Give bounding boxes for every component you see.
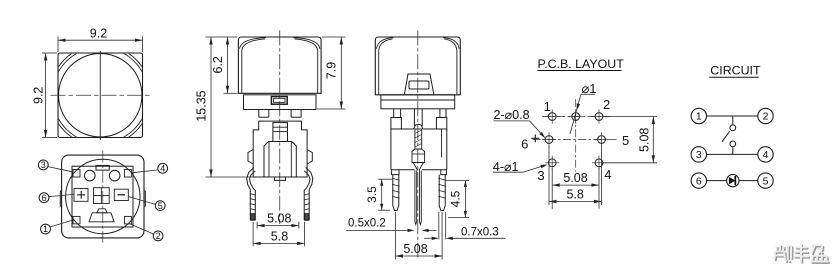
- top view horizontal centerline: [51, 94, 151, 96]
- side view button cap outline: [375, 37, 460, 95]
- callout 4 circle: [158, 163, 168, 173]
- side view LED body hatched cylinder: [415, 129, 422, 149]
- top view switch body square outline: [58, 53, 143, 138]
- pcb label 2-dia-0.8 leader: [530, 121, 544, 137]
- side view LED crimp cup: [412, 149, 425, 163]
- callout 2 circle: [153, 231, 163, 241]
- svg-text:15.35: 15.35: [194, 90, 208, 121]
- svg-text:9.2: 9.2: [32, 87, 46, 104]
- front view centerline: [279, 31, 281, 225]
- bottom view vertical centerline: [102, 151, 104, 243]
- front view inner housing pedestal: [264, 142, 296, 178]
- svg-text:3: 3: [537, 168, 544, 183]
- circuit switch lower contact: [730, 141, 736, 147]
- callout 5 leader: [128, 197, 155, 205]
- circuit LED symbol: [727, 174, 739, 186]
- side view dim 5.08: [395, 255, 442, 257]
- side view dim 3.5 extension lines: [378, 178, 392, 180]
- bottom view left LED pin tab: [59, 191, 61, 207]
- side view right pin collar: [436, 118, 446, 130]
- pcb hole pin 6: [545, 136, 553, 144]
- pcb dim 5.08 horizontal extension lines: [551, 168, 553, 209]
- svg-text:1: 1: [544, 99, 551, 114]
- callout 4 leader: [132, 170, 158, 173]
- side view LED funnel: [413, 163, 423, 171]
- circuit wire row3 left: [707, 180, 727, 182]
- callout 3 circle: [38, 160, 48, 170]
- callout 6 circle: [39, 193, 49, 203]
- front view dim 5.08 extension lines: [256, 222, 258, 229]
- front view neck stubs: [258, 110, 260, 118]
- bottom view LED anode mark plus rectangle: [74, 189, 88, 202]
- side view dim 3.5: [381, 179, 383, 210]
- svg-text:5: 5: [622, 133, 629, 148]
- bottom view LED cathode mark minus rectangle: [114, 189, 128, 200]
- side view base block: [381, 95, 455, 109]
- top view dim 9.2 horizontal: [58, 39, 143, 41]
- front view left mounting clip ear: [248, 150, 253, 165]
- bottom view bottom keying trapezoid: [89, 213, 114, 222]
- side view LED lens dome: [413, 109, 415, 127]
- svg-text:3: 3: [696, 149, 702, 161]
- callout 6 leader: [49, 194, 74, 196]
- svg-text:6.2: 6.2: [211, 56, 225, 73]
- pcb hole pin 4: [595, 159, 603, 167]
- svg-text:2: 2: [603, 97, 610, 112]
- pcb hole pin 1: [548, 113, 556, 121]
- pcb layout row1 centerline: [542, 116, 611, 118]
- side view body left foot: [392, 170, 399, 175]
- pcb label dia-1 leader: [570, 94, 581, 134]
- callout 5 circle: [155, 201, 165, 211]
- bottom view center stem square with cross: [94, 188, 110, 204]
- pcb dim 5.8: [549, 201, 602, 203]
- bottom view pin 3 corner pad: [73, 170, 80, 178]
- bottom view pin 1 corner pad: [73, 216, 80, 224]
- front view right mounting clip ear: [307, 150, 312, 165]
- svg-text:4: 4: [160, 164, 165, 174]
- pcb layout vertical centerline: [575, 99, 577, 172]
- circuit terminal 2: [758, 108, 773, 123]
- side view label 0.5x0.2 leader: [346, 229, 407, 231]
- pcb LED hole center mark: [531, 137, 539, 139]
- side view label 0.7x0.3 leader: [424, 237, 432, 239]
- svg-text:5.8: 5.8: [567, 188, 584, 202]
- bottom view pin 4 corner pad: [124, 170, 131, 178]
- circuit terminal 1: [691, 108, 706, 123]
- callout 2 leader: [129, 223, 154, 234]
- svg-text:⌀1: ⌀1: [581, 81, 596, 96]
- front view switch body outline: [253, 121, 307, 177]
- svg-text:4.5: 4.5: [449, 190, 463, 207]
- front view base block: [244, 95, 317, 110]
- front view body bottom center foot: [275, 177, 286, 180]
- side view left switch pin: [392, 175, 394, 206]
- top view round button cap circle: [59, 54, 142, 137]
- pcb dim 5.8 extension lines: [548, 146, 550, 206]
- side view cap latch boss: [404, 74, 434, 95]
- svg-text:7.9: 7.9: [325, 62, 339, 79]
- front view right solder leg: [306, 168, 313, 221]
- circuit switch lever: [722, 131, 730, 142]
- svg-text:5: 5: [763, 175, 769, 187]
- svg-text:5.08: 5.08: [267, 211, 291, 225]
- svg-text:1: 1: [43, 224, 48, 234]
- callout 1 circle: [41, 224, 51, 234]
- front view dim 6.2 extension line: [224, 92, 238, 94]
- bottom view right LED pin tab: [144, 191, 146, 207]
- bottom view base circle: [66, 159, 140, 233]
- callout 3 leader: [48, 167, 73, 172]
- svg-text:5: 5: [158, 201, 163, 211]
- front view dim 6.2: [227, 37, 229, 93]
- pcb dim 5.08 vertical: [652, 117, 654, 163]
- front view dim 5.8 extension lines: [252, 222, 254, 247]
- front view dim 5.8: [253, 242, 304, 244]
- circuit terminal 3: [691, 147, 706, 162]
- circuit terminal 4: [758, 147, 773, 162]
- side view dim 5.08 extension lines: [394, 212, 396, 260]
- top view dim 9.2 vertical extension lines: [42, 52, 57, 54]
- front view button cap outline: [238, 37, 321, 93]
- top view vertical center line: [99, 51, 101, 140]
- svg-text:9.2: 9.2: [90, 26, 107, 40]
- svg-text:5.08: 5.08: [403, 242, 427, 256]
- svg-text:2: 2: [763, 111, 769, 123]
- front view dim 15.35: [210, 37, 212, 177]
- front view dim 5.08: [257, 225, 299, 227]
- callout 1 leader: [50, 220, 74, 227]
- top view dim 9.2 vertical: [45, 53, 47, 138]
- side view right switch pin: [438, 175, 440, 206]
- pcb hole pin 5: [598, 136, 606, 144]
- side view cap inner side lines: [378, 50, 380, 95]
- front view dim 7.9: [340, 37, 342, 109]
- front view cap dome arcs: [240, 38, 266, 49]
- svg-text:CIRCUIT: CIRCUIT: [710, 64, 761, 78]
- front view dim 7.9 extension lines: [322, 36, 345, 38]
- circuit switch upper contact: [730, 125, 736, 131]
- side view base stubs: [393, 109, 395, 118]
- bottom view left locating boss circle: [85, 170, 96, 181]
- circuit terminal 5: [758, 173, 773, 188]
- pcb hole pin 3: [548, 159, 556, 167]
- pcb layout row2 centerline: [533, 139, 618, 141]
- pcb dim 5.08 vertical extension lines: [604, 116, 658, 118]
- front view left solder leg: [247, 168, 254, 221]
- svg-text:1: 1: [696, 111, 702, 123]
- svg-text:3: 3: [41, 160, 46, 170]
- front view plunger: [273, 123, 288, 142]
- bottom view inner square: [72, 166, 133, 227]
- side view left pin collar: [391, 118, 402, 130]
- pcb dim 5.08 horizontal: [552, 184, 599, 186]
- svg-text:6: 6: [521, 137, 528, 152]
- svg-text:0.5x0.2: 0.5x0.2: [348, 218, 386, 230]
- svg-text:4: 4: [763, 149, 769, 161]
- svg-text:3.5: 3.5: [365, 186, 379, 203]
- circuit wire row2: [732, 147, 734, 155]
- svg-text:4-⌀1: 4-⌀1: [493, 160, 519, 174]
- circuit terminal 6: [691, 173, 706, 188]
- svg-text:2: 2: [156, 231, 161, 241]
- pcb hole pin 2: [595, 113, 603, 121]
- bottom view right locating boss circle: [109, 170, 120, 181]
- svg-text:5.08: 5.08: [638, 128, 652, 152]
- front view cap inner side lines: [241, 50, 243, 93]
- side view switch body box: [391, 128, 414, 130]
- top view dim 9.2 horizontal extension lines: [57, 37, 59, 53]
- svg-text:0.7x0.3: 0.7x0.3: [461, 226, 499, 238]
- side view cap dome arcs: [377, 38, 394, 49]
- pcb hole center: [572, 113, 580, 121]
- watermark logo text: [776, 245, 830, 264]
- front view cap latch window: [271, 97, 287, 105]
- front view dim 15.35 extension lines: [206, 36, 238, 38]
- circuit wire row1: [707, 115, 758, 117]
- svg-text:2-⌀0.8: 2-⌀0.8: [494, 108, 530, 122]
- side view dim 4.5 extension lines: [446, 180, 469, 182]
- svg-text:4: 4: [604, 167, 611, 182]
- side view dim 4.5: [464, 181, 466, 218]
- svg-text:6: 6: [41, 193, 46, 203]
- svg-text:P.C.B. LAYOUT: P.C.B. LAYOUT: [538, 57, 625, 71]
- bottom view pin 2 corner pad: [124, 216, 131, 224]
- side view body right foot: [441, 170, 447, 175]
- svg-text:5.8: 5.8: [271, 230, 288, 244]
- side view centerline: [417, 31, 419, 258]
- svg-text:5.08: 5.08: [563, 171, 587, 185]
- side view LED wire legs: [414, 170, 416, 221]
- pcb label 4-dia-1 leader: [523, 165, 545, 172]
- svg-text:6: 6: [696, 175, 702, 187]
- bottom view top center notch: [96, 165, 109, 170]
- circuit wire row3 right: [739, 180, 758, 182]
- bottom view outer case outline: [62, 155, 144, 238]
